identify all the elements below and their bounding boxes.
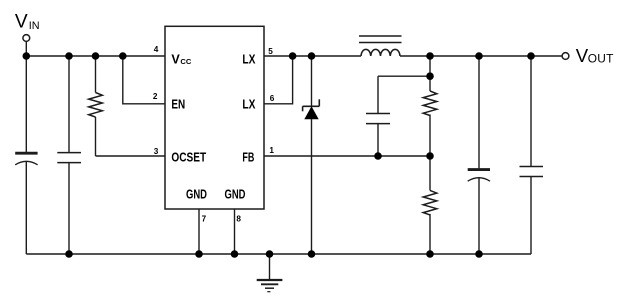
wire: VIN terminal to input rail	[25, 41, 27, 56]
svg-text:5: 5	[268, 47, 273, 56]
svg-text:LX: LX	[242, 98, 255, 112]
svg-text:GND: GND	[225, 187, 246, 201]
net label VOUT	[576, 45, 614, 66]
junction ground rail / ground symbol	[266, 250, 274, 258]
terminal VIN	[23, 35, 30, 42]
wire: FB pin 1 line	[264, 155, 430, 157]
svg-text:OCSET: OCSET	[171, 151, 206, 165]
junction FB line / feedback divider	[426, 152, 434, 160]
svg-text:1: 1	[269, 146, 274, 155]
junction output rail / electrolytic cap	[475, 52, 483, 60]
wire: LX pin 6 riser	[264, 56, 293, 104]
wire: output node to feedforward tee	[429, 56, 431, 76]
resistor OCSET	[89, 56, 103, 156]
junction ground rail / diode anode	[308, 250, 316, 258]
ground symbol	[257, 254, 283, 292]
IC U1 body	[165, 26, 264, 209]
junction rail / ceramic cap	[65, 52, 73, 60]
wire: resistor to OCSET pin 3	[96, 155, 166, 157]
junction output rail / ceramic cap	[527, 52, 535, 60]
wire: input rail to VCC pin 4	[26, 55, 165, 57]
svg-text:2: 2	[153, 92, 158, 101]
wire: GND pin 8	[234, 209, 236, 254]
svg-text:8: 8	[236, 215, 241, 224]
svg-text:4: 4	[154, 45, 159, 54]
svg-text:7: 7	[202, 215, 207, 224]
junction ground rail / output electrolytic	[475, 250, 483, 258]
svg-text:V: V	[15, 12, 28, 33]
resistor feedback upper	[423, 76, 437, 156]
junction rail / EN wire	[119, 52, 127, 60]
junction LX / diode	[308, 52, 316, 60]
svg-text:CC: CC	[180, 57, 191, 66]
junction ground rail / pin 7	[195, 250, 203, 258]
svg-text:6: 6	[270, 94, 275, 103]
svg-text:OUT: OUT	[588, 51, 614, 65]
svg-text:EN: EN	[171, 98, 185, 112]
svg-text:3: 3	[154, 147, 159, 156]
svg-text:IN: IN	[29, 20, 40, 32]
feedforward capacitor	[366, 76, 430, 156]
terminal VOUT	[562, 53, 569, 60]
svg-text:V: V	[171, 52, 180, 66]
wire: input rail to EN pin 2	[123, 56, 165, 104]
junction FB line / feedforward cap	[374, 152, 382, 160]
junction VIN rail / input cap	[23, 52, 31, 60]
junction ground rail / input ceramic cap	[65, 250, 73, 258]
wire: LX pin 5 to inductor	[264, 55, 361, 57]
capacitor input electrolytic	[15, 56, 37, 254]
junction output rail / upper feedback resistor	[426, 52, 434, 60]
capacitor input ceramic	[57, 56, 81, 254]
resistor feedback lower	[423, 156, 437, 254]
junction ground rail / pin 8	[231, 250, 239, 258]
junction feedforward tee	[426, 72, 434, 80]
junction ground rail / lower feedback resistor	[426, 250, 434, 258]
wire: ground rail	[26, 253, 531, 255]
wire: inductor to VOUT terminal	[400, 55, 562, 57]
pin number labels	[153, 45, 275, 223]
junction rail / OCSET resistor	[92, 52, 100, 60]
inductor	[359, 36, 402, 56]
capacitor output electrolytic	[468, 56, 490, 254]
svg-text:V: V	[576, 45, 589, 66]
svg-text:LX: LX	[242, 52, 255, 66]
wire: GND pin 7	[198, 209, 200, 254]
IC U1 labels	[171, 52, 255, 201]
capacitor output ceramic	[520, 56, 544, 254]
net label VIN	[15, 12, 40, 33]
schottky catch diode	[303, 56, 320, 254]
junction LX / pin6 riser	[289, 52, 297, 60]
svg-text:GND: GND	[186, 187, 207, 201]
svg-text:FB: FB	[242, 150, 254, 164]
